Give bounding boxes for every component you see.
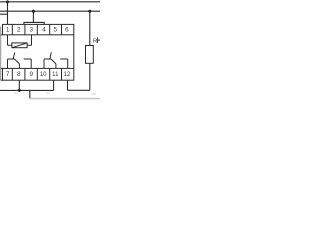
- wire terminal 1 drop: [7, 2, 9, 25]
- contact S1 terminal8 stub: [18, 64, 20, 69]
- wire coil feed horizontal: [8, 44, 12, 46]
- node junction dot bus2/thermistor: [88, 10, 91, 13]
- svg-text:9: 9: [30, 71, 34, 78]
- contact S1 blade to terminal 8: [15, 59, 20, 64]
- wire lower net (faded): [30, 97, 100, 99]
- contact S2 blade to terminal 11: [51, 59, 56, 64]
- svg-text:3: 3: [30, 27, 34, 34]
- background: [0, 0, 100, 100]
- wire bridge left stub: [23, 22, 25, 24]
- wire L3 stub left supply: [0, 13, 8, 15]
- wire coil out horizontal: [27, 44, 31, 46]
- wire coil feed vertical from terminal 1: [7, 35, 9, 46]
- wire terminal 12 drop: [67, 80, 69, 90]
- svg-text:7: 7: [6, 71, 10, 78]
- wire bridge terminals 3-4: [24, 21, 45, 23]
- terminal row1 divider 1|2: [11, 24, 13, 34]
- device outline right edge: [73, 35, 75, 69]
- node junction dot bus1/terminal1: [6, 0, 9, 3]
- wire bottom bus drop to lower net: [29, 90, 31, 98]
- contact S2 open blade: [50, 52, 51, 58]
- contact S2 terminal11 stub: [55, 64, 57, 69]
- svg-text:2: 2: [17, 27, 21, 34]
- svg-text:12: 12: [64, 72, 71, 78]
- device outline row2 bottom extension: [1, 79, 3, 81]
- terminal row 1 box: [3, 24, 74, 34]
- terminal labels row 1: [6, 27, 69, 34]
- svg-text:R: R: [93, 39, 97, 45]
- terminal row 2 box: [3, 68, 74, 80]
- faded bottom strip: [30, 99, 100, 100]
- svg-text:4: 4: [42, 27, 46, 34]
- terminal row1 divider 4|5: [49, 24, 51, 34]
- contact S1 NO bar: [24, 58, 32, 60]
- terminal row1 divider 5|6: [61, 24, 63, 34]
- terminal row2 divider 10|11: [49, 68, 51, 80]
- wire bridge right stub: [43, 22, 45, 24]
- wire L1 top supply bus: [0, 1, 100, 3]
- contact S1 fixed bar: [8, 58, 15, 60]
- wire thermistor bottom lead: [89, 63, 91, 90]
- node junction dot bus2/bridge: [32, 10, 35, 13]
- wire bus2 to bridge riser: [32, 11, 34, 22]
- svg-text:1: 1: [6, 27, 10, 34]
- svg-text:8: 8: [17, 71, 21, 78]
- contact S1 open blade: [13, 52, 14, 58]
- thermistor Rt body: [86, 46, 94, 64]
- wire coil out riser to terminal 3: [31, 35, 33, 46]
- device outline row1 bottom extension: [1, 34, 3, 36]
- wire bottom bus N: [0, 89, 54, 91]
- terminal row2 divider 11|12: [61, 68, 63, 80]
- svg-text:6: 6: [65, 27, 69, 34]
- terminal labels row 2: [6, 71, 71, 78]
- terminal row2 divider 7|8: [11, 68, 13, 80]
- terminal row2 divider 8|9: [24, 68, 26, 80]
- contact S2 fixed bar: [44, 58, 51, 60]
- terminal row2 divider 9|10: [36, 68, 38, 80]
- contact S1 terminal9 riser: [30, 59, 32, 68]
- watermark smudges: [14, 92, 96, 94]
- svg-text:5: 5: [54, 27, 58, 34]
- terminal row1 divider 3|4: [36, 24, 38, 34]
- svg-text:10: 10: [40, 72, 47, 78]
- device outline row2 top extension: [1, 67, 3, 69]
- wire L2 second supply bus: [0, 10, 100, 12]
- coil K1 (rectangle with diagonal): [12, 43, 27, 48]
- contact S1 terminal7 riser: [7, 59, 9, 68]
- wire terminal 8 drop: [18, 80, 20, 90]
- node junction dot bottom bus / terminal 8: [18, 89, 21, 92]
- wire bus2 to thermistor drop: [89, 11, 91, 45]
- device outline left edge: [0, 27, 2, 81]
- wire terminal 11 drop: [53, 80, 55, 90]
- contact S2 NO bar: [60, 58, 67, 60]
- svg-text:11: 11: [52, 72, 59, 78]
- contact S2 terminal10 riser: [43, 59, 45, 68]
- contact S2 terminal12 riser: [67, 59, 69, 68]
- wire thermistor return horizontal: [68, 89, 90, 91]
- terminal row1 divider 2|3: [24, 24, 26, 34]
